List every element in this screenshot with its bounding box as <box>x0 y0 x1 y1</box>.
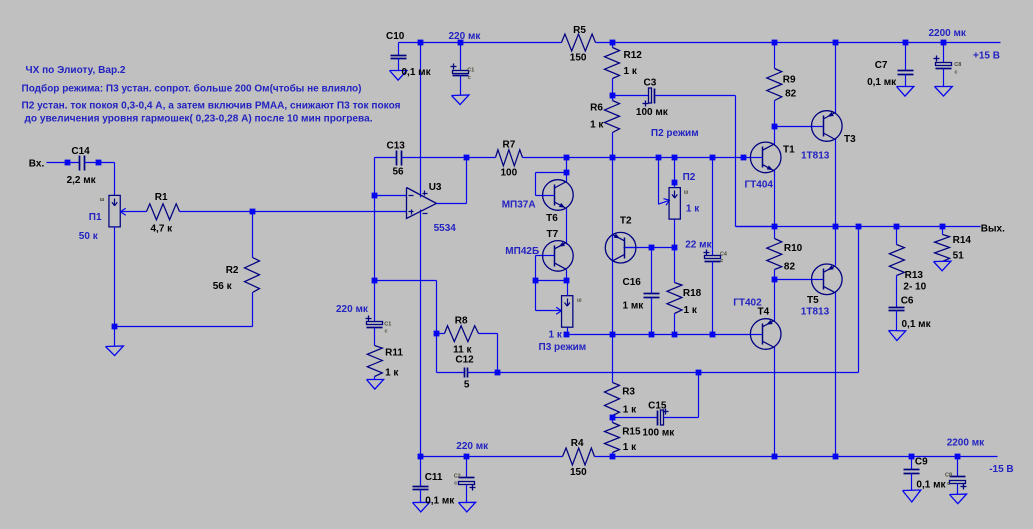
svg-text:Вх.: Вх. <box>29 159 45 170</box>
svg-text:c: c <box>468 75 471 81</box>
svg-text:МП37А: МП37А <box>502 200 536 211</box>
svg-text:R13: R13 <box>905 270 924 281</box>
svg-text:R9: R9 <box>783 75 796 86</box>
svg-text:2200 мк: 2200 мк <box>947 437 985 448</box>
svg-text:1 к: 1 к <box>590 120 604 131</box>
svg-text:1 к: 1 к <box>385 368 399 379</box>
svg-text:МП42Б: МП42Б <box>505 246 539 257</box>
svg-text:T3: T3 <box>844 134 856 145</box>
svg-text:1 к: 1 к <box>549 329 563 340</box>
svg-text:82: 82 <box>784 261 796 272</box>
svg-text:0,1 мк: 0,1 мк <box>425 495 455 506</box>
svg-text:C9: C9 <box>915 457 928 468</box>
svg-text:2,2 мк: 2,2 мк <box>67 175 97 186</box>
svg-text:ГТ402: ГТ402 <box>733 297 762 308</box>
svg-text:T1: T1 <box>783 144 795 155</box>
svg-text:T5: T5 <box>807 295 819 306</box>
svg-text:C16: C16 <box>623 277 642 288</box>
svg-text:R8: R8 <box>455 315 468 326</box>
svg-text:C3: C3 <box>644 78 657 89</box>
svg-text:c: c <box>955 70 958 76</box>
svg-text:П2 устан. ток покоя 0,3-0,4 А,: П2 устан. ток покоя 0,3-0,4 А, а затем в… <box>22 100 401 112</box>
svg-text:C2: C2 <box>454 474 461 480</box>
svg-text:C8: C8 <box>945 473 952 479</box>
svg-text:1 к: 1 к <box>623 442 637 453</box>
svg-text:c: c <box>720 258 723 264</box>
svg-text:C11: C11 <box>425 472 443 483</box>
svg-text:до увеличения уровня гармошек(: до увеличения уровня гармошек( 0,23-0,28… <box>25 113 373 125</box>
svg-text:220 мк: 220 мк <box>336 304 369 315</box>
svg-text:56: 56 <box>393 167 405 178</box>
svg-text:5534: 5534 <box>434 223 457 234</box>
svg-text:П2: П2 <box>683 172 696 183</box>
svg-text:C12: C12 <box>455 354 474 365</box>
svg-text:R2: R2 <box>226 265 239 276</box>
svg-text:100 мк: 100 мк <box>636 107 669 118</box>
svg-text:1 мк: 1 мк <box>623 301 645 312</box>
svg-text:5: 5 <box>464 380 470 391</box>
svg-text:R11: R11 <box>385 348 403 359</box>
svg-text:R12: R12 <box>624 50 643 61</box>
svg-text:R5: R5 <box>573 25 586 36</box>
svg-text:2- 10: 2- 10 <box>903 282 926 293</box>
svg-text:R4: R4 <box>571 438 584 449</box>
svg-text:П3 режим: П3 режим <box>539 342 587 353</box>
svg-text:150: 150 <box>570 467 587 478</box>
svg-text:c: c <box>454 481 457 487</box>
svg-text:0,1 мк: 0,1 мк <box>402 67 432 78</box>
svg-text:C10: C10 <box>386 31 405 42</box>
svg-text:1 к: 1 к <box>623 404 637 415</box>
svg-text:56 к: 56 к <box>213 281 233 292</box>
svg-text:1 к: 1 к <box>686 204 700 215</box>
svg-text:R1: R1 <box>155 192 168 203</box>
svg-text:1Т813: 1Т813 <box>801 307 830 318</box>
svg-text:150: 150 <box>570 53 587 64</box>
svg-text:C7: C7 <box>875 60 888 71</box>
svg-text:T7: T7 <box>547 229 559 240</box>
svg-text:R18: R18 <box>683 288 702 299</box>
svg-text:T6: T6 <box>546 213 558 224</box>
svg-text:1 к: 1 к <box>624 66 638 77</box>
svg-text:-15 В: -15 В <box>989 464 1013 475</box>
svg-text:Подбор режима: П3 устан. сопро: Подбор режима: П3 устан. сопрот. больше … <box>22 83 362 95</box>
svg-text:T2: T2 <box>620 216 632 227</box>
svg-text:100 мк: 100 мк <box>642 427 675 438</box>
svg-text:50 к: 50 к <box>79 231 99 242</box>
svg-text:0,1 мк: 0,1 мк <box>916 479 946 490</box>
svg-text:ГТ404: ГТ404 <box>745 179 774 190</box>
svg-text:0,1 мк: 0,1 мк <box>902 319 932 330</box>
svg-text:П1: П1 <box>89 212 102 223</box>
svg-text:c: c <box>947 481 950 487</box>
svg-text:U3: U3 <box>429 182 442 193</box>
svg-text:C8: C8 <box>954 62 961 68</box>
svg-text:100: 100 <box>501 168 518 179</box>
svg-text:220 мк: 220 мк <box>449 31 482 42</box>
svg-text:R3: R3 <box>622 387 635 398</box>
svg-text:C1: C1 <box>384 322 391 328</box>
svg-text:51: 51 <box>953 251 965 262</box>
svg-text:ш: ш <box>577 297 582 303</box>
svg-text:C1: C1 <box>467 68 474 74</box>
svg-text:0,1 мк: 0,1 мк <box>867 77 897 88</box>
svg-text:+15 В: +15 В <box>973 51 1000 62</box>
svg-text:C13: C13 <box>387 141 406 152</box>
svg-text:R7: R7 <box>503 140 516 151</box>
svg-text:П2 режим: П2 режим <box>651 128 699 139</box>
svg-text:ЧХ по Элиоту, Вар.2: ЧХ по Элиоту, Вар.2 <box>26 64 126 76</box>
svg-text:R14: R14 <box>953 235 972 246</box>
svg-text:R6: R6 <box>590 103 603 114</box>
svg-text:C14: C14 <box>71 146 90 157</box>
svg-text:C15: C15 <box>648 401 667 412</box>
svg-text:R15: R15 <box>622 427 641 438</box>
svg-text:2200 мк: 2200 мк <box>929 28 967 39</box>
svg-text:c: c <box>385 329 388 335</box>
svg-text:1 к: 1 к <box>684 305 698 316</box>
svg-text:R10: R10 <box>784 243 803 254</box>
svg-text:Вых.: Вых. <box>981 223 1005 234</box>
svg-text:C4: C4 <box>720 252 728 258</box>
svg-text:22 мк: 22 мк <box>685 239 712 250</box>
svg-text:C6: C6 <box>901 296 914 307</box>
svg-text:1Т813: 1Т813 <box>801 150 830 161</box>
svg-text:ш: ш <box>684 190 689 196</box>
svg-text:220 мк: 220 мк <box>456 441 489 452</box>
svg-text:82: 82 <box>785 89 797 100</box>
svg-text:4,7 к: 4,7 к <box>151 224 174 235</box>
svg-text:ш: ш <box>100 197 105 203</box>
